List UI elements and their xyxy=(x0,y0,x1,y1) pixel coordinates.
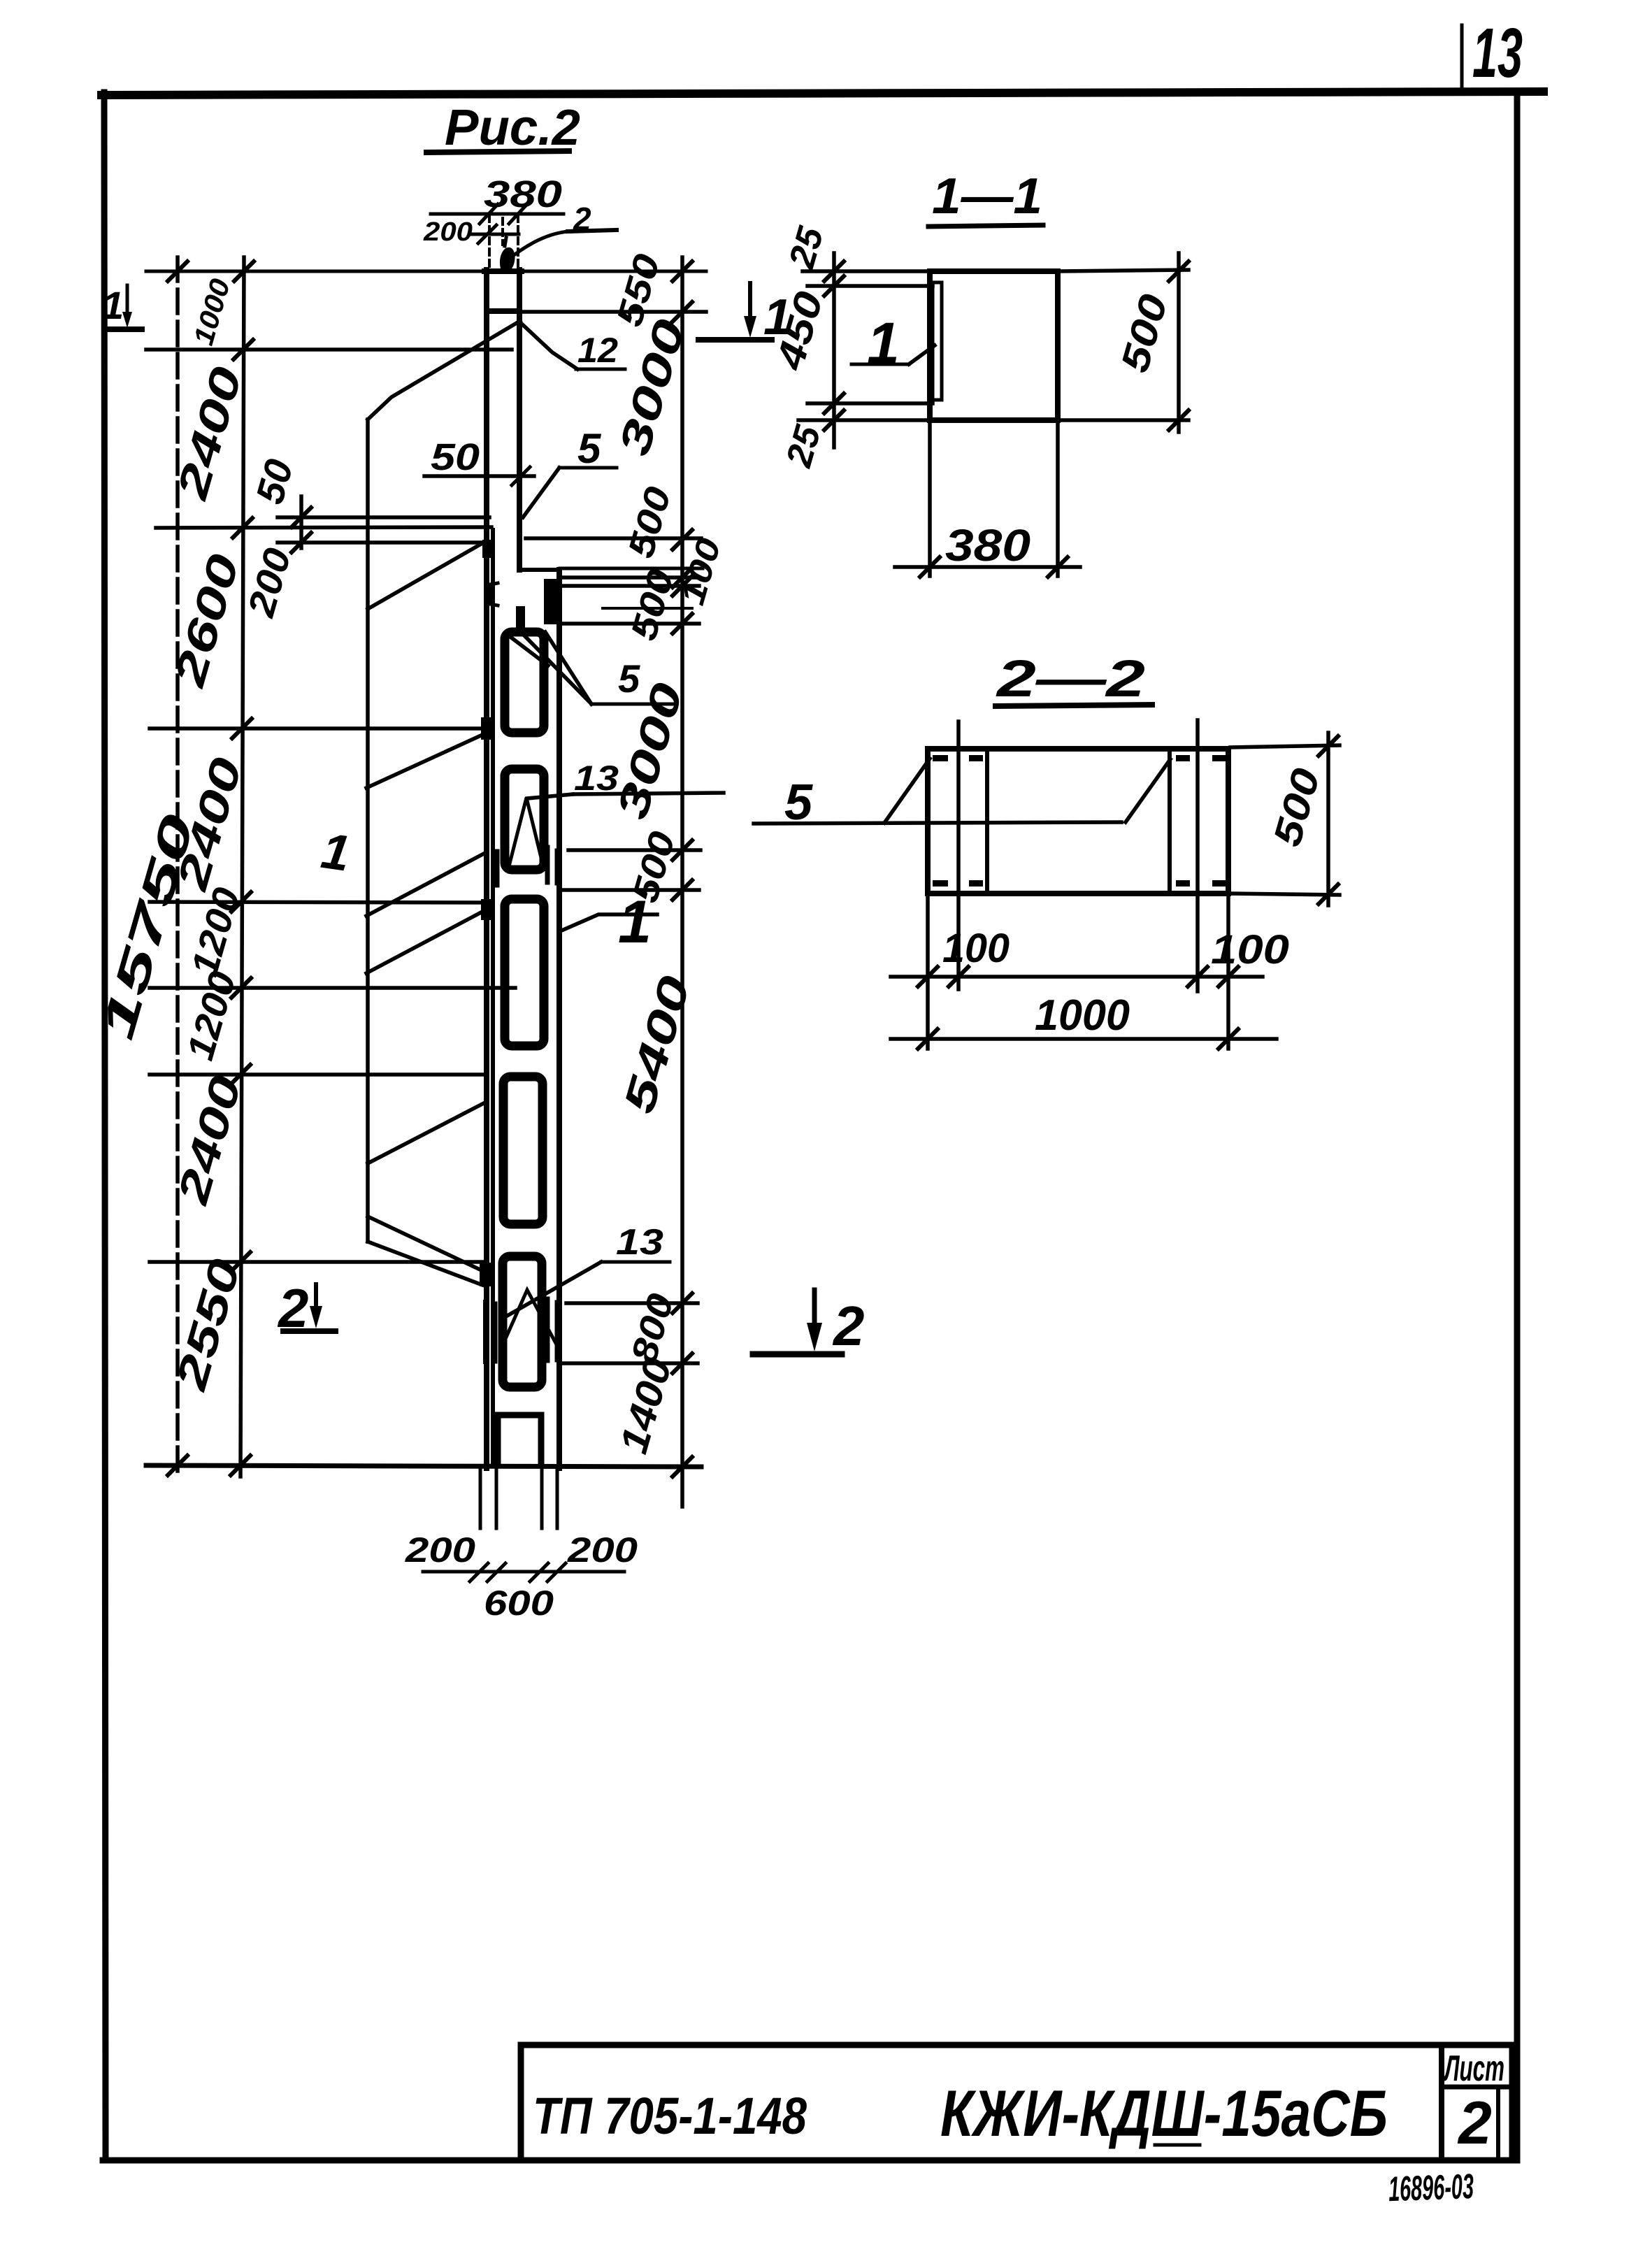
level lines y=740/754/776 (50,200 steps) xyxy=(278,515,489,519)
svg-text:380: 380 xyxy=(484,173,562,215)
svg-text:2: 2 xyxy=(277,1277,308,1339)
window opening W4 xyxy=(503,1077,543,1224)
level line y=500 (1000) xyxy=(146,347,512,352)
tick marks left chain xyxy=(168,261,311,1475)
label 13 (lower) with leader xyxy=(601,1261,670,1264)
level line y=1042 xyxy=(150,726,484,731)
svg-text:2—2: 2—2 xyxy=(995,649,1145,708)
section 1-1 body xyxy=(930,271,1058,420)
svg-text:100: 100 xyxy=(1211,927,1289,972)
wedge diagonal to step 1575 xyxy=(368,1103,484,1163)
2-2 corner angle marks xyxy=(933,755,1226,886)
wedge diagonal to step 775 xyxy=(368,543,482,609)
level line y=1290 xyxy=(150,902,485,903)
column inner left flange line xyxy=(491,530,495,1465)
svg-text:200: 200 xyxy=(423,217,473,247)
wedge vertical line xyxy=(366,419,370,1242)
svg-text:2: 2 xyxy=(832,1295,865,1357)
section mark 2 (left) xyxy=(283,1328,336,1334)
leader and label 12 xyxy=(521,323,577,369)
svg-text:2: 2 xyxy=(1457,2090,1492,2157)
leader to label 2 xyxy=(508,231,569,260)
window opening W2 xyxy=(505,769,544,870)
frame border left xyxy=(104,92,106,2160)
pocket slots near right step xyxy=(490,583,498,605)
title block divider horizontal xyxy=(1442,2085,1512,2090)
joint wedge in W2 xyxy=(508,798,544,869)
svg-text:Лист: Лист xyxy=(1443,2048,1504,2089)
svg-text:380: 380 xyxy=(945,520,1030,570)
column shaft right edge (upper) xyxy=(517,270,522,570)
level line y=1537 xyxy=(150,1072,484,1077)
2-2 right dim 500 xyxy=(1326,733,1330,905)
2-2 bottom dims xyxy=(926,893,930,1049)
right side extension lines xyxy=(521,310,706,314)
svg-text:13: 13 xyxy=(616,1222,663,1263)
svg-text:600: 600 xyxy=(484,1584,554,1623)
wedge diagonal to step 1050 xyxy=(366,735,482,788)
column elevation: top 380 dim line xyxy=(431,213,563,216)
50 dim (right of shaft) xyxy=(424,474,534,478)
frame border right xyxy=(1514,93,1521,2160)
diagonal in W1 xyxy=(508,635,548,666)
svg-text:1: 1 xyxy=(102,283,124,327)
embedded plate (item 1) in 1-1 xyxy=(933,282,942,400)
2-2 extension verticals xyxy=(956,722,961,989)
column shaft left edge xyxy=(484,270,489,1468)
window opening W1 xyxy=(505,632,544,733)
column right edge (lower) xyxy=(556,570,562,1468)
bracket plates at W2 bottom joints xyxy=(495,852,500,885)
title block small cell line xyxy=(1496,2087,1500,2160)
title block divider vertical xyxy=(1439,2045,1444,2160)
svg-text:5: 5 xyxy=(618,656,640,701)
svg-text:200: 200 xyxy=(405,1530,475,1570)
svg-text:ТП 705-1-148: ТП 705-1-148 xyxy=(533,2087,807,2145)
tick marks right chain xyxy=(673,261,692,1477)
svg-text:13: 13 xyxy=(1472,14,1523,92)
dashed extension lines at column head xyxy=(488,215,491,268)
frame border top xyxy=(101,92,1544,95)
svg-text:13: 13 xyxy=(574,759,619,798)
right dimension chain line xyxy=(680,257,684,1507)
right chain dimension labels xyxy=(608,250,728,1458)
section 2-2 body xyxy=(928,749,1228,893)
svg-text:200: 200 xyxy=(567,1530,638,1570)
wedge bottom diagonal a xyxy=(368,1216,484,1272)
svg-text:5: 5 xyxy=(577,425,602,472)
label 5 (slots) with leaders xyxy=(591,703,673,706)
column right step xyxy=(519,568,560,572)
svg-text:2: 2 xyxy=(573,201,591,237)
bottom socket opening W6 xyxy=(498,1415,541,1465)
left chain dimension labels xyxy=(91,275,301,1395)
frame border bottom xyxy=(103,2158,1517,2164)
svg-text:1000: 1000 xyxy=(1035,991,1130,1040)
bottom 200/600/200 dims xyxy=(423,1570,624,1574)
lifting loop (item 2) at column head xyxy=(500,247,515,268)
joint blobs on left edge xyxy=(481,717,492,740)
svg-text:Рис.2: Рис.2 xyxy=(445,100,580,156)
ground line y=2096 xyxy=(146,1465,701,1467)
label 1 with leader (1-1 plate) xyxy=(852,363,909,366)
label 5 (top) with leader xyxy=(559,466,617,470)
label 5 with leader (2-2) xyxy=(754,822,1121,824)
column tip top edge xyxy=(484,268,522,274)
svg-text:1—1: 1—1 xyxy=(932,168,1042,224)
label 1 (right of column) with leader xyxy=(560,914,657,931)
wedge diagonal to step 1300 xyxy=(366,911,484,973)
section mark 1 (right) xyxy=(698,337,772,343)
label 13 (upper) with leader xyxy=(573,793,724,794)
below-ground tails xyxy=(479,1470,482,1528)
bracket plates at W5 top joints xyxy=(483,1302,487,1362)
2-2 inner web lines xyxy=(985,749,989,893)
wedge bottom diagonal b xyxy=(368,1242,482,1285)
wedge diagonal to bracket 1220 xyxy=(366,853,485,916)
1-1 left dim chain xyxy=(832,253,836,447)
column tip joint line xyxy=(487,308,519,314)
section mark 1 (left) xyxy=(106,326,142,332)
svg-text:КЖИ-КДШ-15аСБ: КЖИ-КДШ-15аСБ xyxy=(940,2076,1388,2150)
wedge outline top diagonal xyxy=(368,321,520,419)
left dimension chain line xyxy=(240,257,244,1477)
column top 200 dim line xyxy=(470,233,519,236)
level line y=1805 xyxy=(150,1260,482,1264)
svg-text:100: 100 xyxy=(942,926,1010,971)
svg-text:5: 5 xyxy=(784,775,813,831)
sub-chain for 50/200 xyxy=(299,496,303,548)
title block outer box xyxy=(521,2045,1512,2160)
section mark 2 (right) xyxy=(753,1351,842,1358)
page number separator tick xyxy=(1460,25,1464,89)
svg-text:12: 12 xyxy=(577,331,618,370)
joint wedge in W5 xyxy=(503,1290,557,1346)
1-1 bottom dim 380 xyxy=(928,420,932,576)
window opening W3 xyxy=(505,899,544,1046)
level line y=1413 xyxy=(150,986,515,990)
1-1 right dim 500 xyxy=(1177,253,1181,432)
svg-text:16896-03: 16896-03 xyxy=(1388,2167,1474,2209)
underline under III xyxy=(1155,2144,1200,2147)
top level extension line y=388 xyxy=(146,270,487,273)
svg-text:1: 1 xyxy=(867,310,900,376)
window opening W5 xyxy=(503,1256,542,1387)
svg-text:50: 50 xyxy=(431,436,480,478)
left overall dimension line 15750 xyxy=(175,257,180,1477)
